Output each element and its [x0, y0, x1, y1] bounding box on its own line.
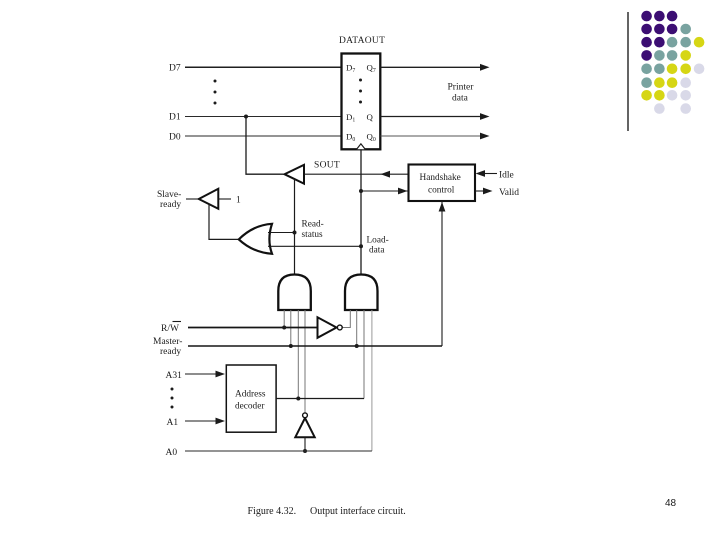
wire A1 with right arrow into decoder — [185, 418, 225, 425]
svg-text:A31: A31 — [166, 371, 183, 381]
wire slave-ready output — [186, 198, 199, 200]
wire A0 — [185, 450, 372, 452]
wire G3 input 2 from master-ready — [356, 310, 358, 346]
svg-text:A1: A1 — [167, 418, 179, 428]
wire D1 — [185, 115, 342, 119]
svg-text:Address: Address — [235, 390, 266, 400]
svg-text:Q: Q — [367, 112, 374, 122]
svg-text:48: 48 — [665, 498, 677, 509]
wire D0 — [185, 135, 342, 137]
wire G3 input 3 from decoder — [363, 310, 365, 399]
ellipsis dots between A31 and A1 — [171, 388, 174, 409]
svg-text:data: data — [369, 246, 384, 256]
or-gate G1 (points left) — [239, 224, 272, 254]
wire A31 with right arrow into decoder — [185, 371, 225, 378]
svg-text:Read-: Read- — [302, 220, 324, 230]
svg-text:ready: ready — [160, 347, 181, 357]
wire slave buffer enable from OR output — [209, 204, 239, 239]
svg-text:Master-: Master- — [153, 337, 182, 347]
svg-text:1: 1 — [236, 196, 241, 206]
wire D7 — [185, 66, 342, 68]
tri-state buffer slave-ready — [199, 189, 219, 209]
ellipsis dots inside register — [359, 79, 362, 104]
wire G2 input 1 from R/W — [283, 310, 285, 328]
wire G2 input 2 from master-ready — [290, 310, 292, 346]
wire handshake to SOUT buffer input with left arrow — [304, 171, 409, 178]
svg-text:DATAOUT: DATAOUT — [339, 36, 385, 46]
label Read-status — [302, 220, 324, 241]
svg-text:D0: D0 — [169, 133, 181, 143]
inverter G5 on A0 (points up) — [295, 413, 314, 437]
label R/W with overbar — [161, 322, 181, 335]
svg-text:Slave-: Slave- — [157, 190, 181, 200]
svg-text:Handshake: Handshake — [420, 173, 461, 183]
svg-text:D7: D7 — [169, 64, 181, 74]
svg-text:R/W: R/W — [161, 324, 179, 334]
svg-text:A0: A0 — [166, 448, 178, 458]
svg-text:control: control — [428, 186, 455, 196]
wire Q7 printer output — [381, 64, 490, 71]
register DATAOUT — [342, 54, 381, 150]
wire G2 input 4 from A0 inverter — [304, 310, 306, 413]
ellipsis dots between D7 and D1 — [214, 80, 217, 105]
tri-state buffer SOUT — [285, 165, 305, 184]
wire OR bottom input from clock line — [268, 245, 361, 247]
clock input triangle of DATAOUT — [357, 144, 366, 150]
wire Idle input with left arrow — [476, 170, 498, 177]
label Master-ready — [153, 337, 182, 357]
wire R/W — [188, 326, 318, 330]
label Handshake control — [420, 173, 461, 196]
inverter G4 on R/W — [318, 317, 343, 338]
wire OR top input from SOUT enable line — [268, 232, 295, 234]
and-gate G2 read-status — [278, 275, 311, 311]
svg-text:status: status — [302, 230, 324, 240]
wire G3 input 1 from R/W inverter — [342, 310, 350, 328]
svg-text:Valid: Valid — [499, 188, 519, 198]
wire constant 1 input — [218, 198, 231, 200]
address decoder box — [226, 365, 276, 432]
svg-text:SOUT: SOUT — [314, 161, 340, 171]
svg-text:Output interface circuit.: Output interface circuit. — [310, 506, 406, 517]
label Load-data — [367, 236, 389, 256]
wire Q1 printer output — [381, 113, 490, 120]
svg-text:Load-: Load- — [367, 236, 389, 246]
wire Q0 printer output — [381, 133, 490, 140]
caption Figure 4.32 — [248, 506, 406, 517]
svg-text:decoder: decoder — [235, 402, 265, 412]
svg-text:D1: D1 — [169, 113, 181, 123]
and-gate G3 load-data — [345, 275, 378, 311]
wire clock from register down to load AND output — [359, 149, 363, 274]
wire decoder output — [276, 397, 364, 401]
handshake control box — [409, 165, 476, 202]
label Slave-ready — [157, 190, 181, 210]
wire G2 input 3 from decoder — [297, 310, 299, 399]
wire load-data from clock line into handshake with right arrow — [361, 188, 409, 195]
wire G5 input from A0 — [303, 437, 307, 453]
wire master-ready — [188, 344, 442, 348]
svg-text:data: data — [452, 94, 469, 104]
svg-text:Printer: Printer — [448, 83, 475, 93]
wire SOUT enable from read-status AND — [293, 179, 297, 275]
svg-text:Idle: Idle — [499, 171, 514, 181]
wire master-ready up into handshake bottom with up arrow — [439, 201, 446, 346]
label Printer data — [448, 83, 475, 104]
svg-text:Figure 4.32.: Figure 4.32. — [248, 506, 297, 517]
wire SOUT buffer output to D1 tap — [246, 117, 285, 175]
wire G3 input 4 from A0 — [371, 310, 373, 451]
svg-text:ready: ready — [160, 200, 181, 210]
wire Valid output with right arrow — [475, 188, 493, 195]
label Address decoder — [235, 390, 266, 412]
